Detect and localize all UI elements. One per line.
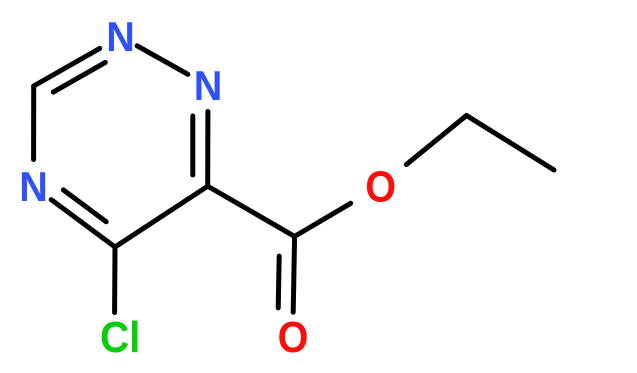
atom O carbonyl	[278, 312, 309, 361]
atom N2 (top nitrogen)	[106, 13, 135, 60]
bond Ccarbonyl-Oester	[295, 203, 351, 236]
bond N2=C3 main	[34, 48, 100, 86]
bond C=O inner (carbonyl double, inner line)	[278, 256, 279, 308]
atom N1 (adjacent nitrogen)	[194, 62, 223, 109]
svg-text:O: O	[365, 162, 396, 211]
atom N4 (left nitrogen)	[19, 163, 48, 210]
bond CH2-CH3	[467, 116, 555, 171]
svg-text:N: N	[19, 163, 48, 210]
bond C=O main (carbonyl double, outer line)	[293, 236, 294, 312]
svg-text:N: N	[106, 13, 135, 60]
bond C6=N1 main	[205, 112, 210, 187]
bond N4=C5 main	[51, 200, 115, 247]
svg-text:O: O	[278, 312, 309, 361]
bond C6-Ccarbonyl	[208, 186, 295, 236]
bond N2=C3 inner	[53, 62, 105, 92]
svg-text:N: N	[194, 62, 223, 109]
bond C5-Cl	[112, 247, 117, 313]
svg-text:Cl: Cl	[100, 312, 140, 361]
bond C6=N1 inner	[190, 116, 195, 175]
atom Cl (chlorine substituent)	[100, 312, 140, 361]
bond C5-C6	[115, 186, 208, 247]
bond Oester-CH2	[406, 116, 466, 165]
atom O ester	[365, 162, 396, 211]
bond N4=C5 inner	[63, 190, 106, 222]
bond C3-N4	[31, 86, 36, 160]
bond N2-N1 (ring N-N)	[137, 46, 188, 75]
